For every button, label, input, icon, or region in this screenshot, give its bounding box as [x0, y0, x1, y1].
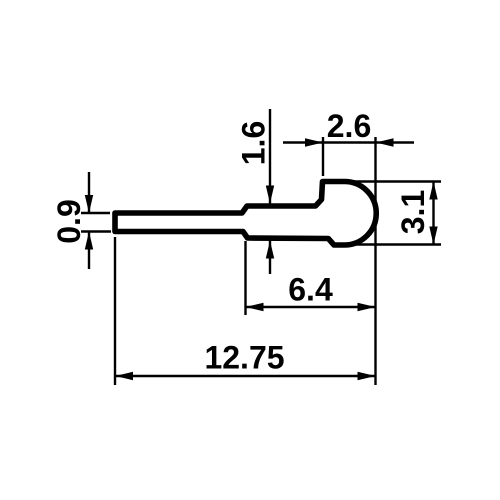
- dimension line 0.9 upper shaft: [88, 172, 90, 213]
- extension line 2.6 left: [322, 137, 324, 176]
- dimension line 1.6 upper shaft: [269, 109, 271, 204]
- arrowhead 6.4 left (pointing left): [246, 303, 264, 311]
- arrowhead 1.6 down: [266, 186, 274, 204]
- dimension line 2.6: [283, 141, 414, 143]
- dimension line 3.1: [432, 182, 434, 245]
- extension line 0.9 top: [81, 212, 110, 214]
- extension line 6.4 left: [244, 241, 246, 315]
- arrowhead 1.6 up: [266, 241, 274, 259]
- extension line 3.1 bottom: [352, 243, 441, 246]
- svg-text:2.6: 2.6: [327, 108, 371, 144]
- svg-text:3.1: 3.1: [395, 190, 431, 234]
- arrowhead 0.9 down: [85, 195, 93, 213]
- arrowhead 2.6 left (pointing right): [305, 138, 323, 146]
- svg-text:12.75: 12.75: [204, 340, 284, 376]
- profile cross-section outline: [115, 182, 376, 246]
- dimension line 12.75: [115, 375, 376, 377]
- arrowhead 6.4 right (pointing right): [358, 303, 376, 311]
- dimension line 0.9 lower shaft: [88, 232, 90, 270]
- arrowhead 3.1 up: [429, 182, 437, 200]
- arrowhead 3.1 down: [429, 227, 437, 245]
- dimension line 1.6 lower shaft: [269, 241, 271, 275]
- extension line right shared (2.6 / 6.4 / 12.75): [374, 137, 376, 385]
- arrowhead 2.6 right (pointing left): [376, 138, 394, 146]
- svg-text:6.4: 6.4: [288, 272, 333, 308]
- svg-text:1.6: 1.6: [235, 121, 271, 165]
- arrowhead 12.75 right (pointing right): [358, 372, 376, 380]
- arrowhead 0.9 up: [85, 232, 93, 250]
- extension line 3.1 top: [352, 180, 441, 183]
- dimension line 6.4: [246, 306, 376, 308]
- extension line 0.9 bottom: [81, 230, 111, 232]
- extension line 12.75 left: [114, 237, 116, 385]
- arrowhead 12.75 left (pointing left): [115, 372, 133, 380]
- svg-text:0.9: 0.9: [51, 199, 87, 243]
